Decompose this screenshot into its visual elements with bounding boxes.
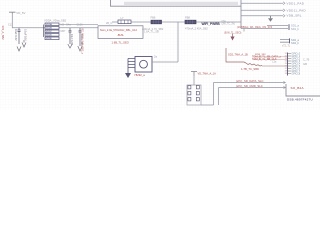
wire into connector — [193, 76, 195, 85]
inductor L7 — [118, 16, 131, 24]
svg-text:C4a: C4a — [66, 24, 71, 27]
svg-text:(2/C)_SD_CMD_SLC: (2/C)_SD_CMD_SLC — [236, 84, 263, 88]
ferrite bead FB6 — [142, 16, 164, 34]
svg-text:1.8A_TL_SB: 1.8A_TL_SB — [144, 30, 159, 34]
bottom connector J3 — [187, 85, 201, 105]
svg-text:SD2_TMA_A_1B: SD2_TMA_A_1B — [228, 52, 248, 56]
wire row1 top right — [241, 1, 305, 5]
svg-text:Y8292_a: Y8292_a — [134, 73, 145, 77]
wire down from upper rail — [177, 22, 179, 62]
svg-text:VDDA: VDDA — [46, 23, 53, 26]
svg-text:VDDD: VDDD — [46, 35, 53, 37]
svg-text:L7: L7 — [121, 16, 124, 20]
svg-text:(2W_TC_3V): (2W_TC_3V) — [222, 23, 236, 25]
long wire with red label (y28.5) — [237, 24, 299, 32]
svg-text:M2: M2 — [61, 23, 65, 26]
crystal / shield can Y8292 — [125, 55, 178, 79]
svg-text:C136: C136 — [77, 24, 84, 27]
svg-text:FB6: FB6 — [151, 16, 156, 20]
svg-text:1.6B_TL_SEO: 1.6B_TL_SEO — [112, 41, 129, 45]
capacitor C12 — [18, 28, 21, 44]
svg-text:(2/C)_SD_DATA_SLC: (2/C)_SD_DATA_SLC — [236, 79, 264, 83]
svg-text:VDD11_PAD: VDD11_PAD — [287, 9, 307, 13]
ground arrow branch 2 — [22, 40, 26, 47]
svg-text:VDDB: VDDB — [46, 28, 53, 30]
note box with red net names — [98, 26, 143, 39]
svg-text:0.1uF 16V: 0.1uF 16V — [24, 29, 27, 41]
capacitor C136 — [77, 24, 84, 52]
wire row3 with power arrow — [241, 14, 302, 22]
svg-text:VDDE: VDDE — [46, 38, 53, 40]
wire from top (x241) — [240, 0, 242, 29]
capacitor C4a — [66, 24, 73, 49]
svg-text:10uF 6.3V: 10uF 6.3V — [14, 29, 17, 41]
IC / bead array U7 — [44, 18, 99, 40]
svg-text:GPIO_8: GPIO_8 — [292, 72, 301, 75]
svg-text:1-TB_TC_SBD: 1-TB_TC_SBD — [241, 67, 259, 71]
svg-text:GB: GB — [303, 62, 307, 66]
svg-text:VDDC: VDDC — [46, 31, 53, 33]
zigzag wire mid — [226, 48, 262, 66]
svg-text:-BUS-: -BUS- — [117, 33, 124, 37]
svg-text:xT2_TL: xT2_TL — [282, 45, 291, 48]
right connector pin field — [252, 52, 310, 75]
power symbol VCC top-left — [9, 11, 26, 15]
svg-text:VD_5V: VD_5V — [16, 11, 25, 15]
main rail wire left — [12, 27, 98, 29]
wire row2 — [241, 9, 306, 13]
svg-text:SO_B2A: SO_B2A — [291, 86, 305, 90]
svg-text:BT_REG_1V8_SB2_x: BT_REG_1V8_SB2_x — [81, 29, 85, 55]
svg-text:(E/W_TL_SEO): (E/W_TL_SEO) — [224, 32, 242, 35]
wires from connector to bottom-right block — [201, 79, 285, 105]
wire from power to rail — [11, 14, 14, 28]
upper rail wire (y22) — [112, 21, 241, 23]
svg-text:FB8: FB8 — [185, 16, 190, 20]
ground arrow under C12 — [17, 47, 21, 52]
svg-text:VDB_SRL: VDB_SRL — [287, 14, 302, 18]
svg-text:2B_m: 2B_m — [106, 22, 112, 25]
svg-text:C12: C12 — [8, 24, 13, 27]
svg-text:470mA_2.45A_SB2: 470mA_2.45A_SB2 — [185, 26, 208, 30]
svg-text:SD1_b: SD1_b — [291, 27, 299, 31]
svg-text:VDDA_VDva_SB2: VDDA_VDva_SB2 — [44, 18, 67, 22]
svg-text:Num_2.0a_570nOHz_KBL_U12: Num_2.0a_570nOHz_KBL_U12 — [100, 28, 137, 32]
svg-text:SD2_b: SD2_b — [291, 41, 299, 45]
svg-text:VDD1_PAD: VDD1_PAD — [287, 1, 305, 5]
svg-text:10uF 6.3V: 10uF 6.3V — [70, 34, 73, 45]
svg-text:DSB.4897F427U: DSB.4897F427U — [287, 97, 313, 101]
ferrite bead FB8 — [185, 16, 208, 31]
svg-text:VD_TMA_A_1A: VD_TMA_A_1A — [198, 72, 217, 76]
svg-text:C2a: C2a — [272, 60, 277, 63]
power flag arrow mid-right — [224, 32, 242, 41]
title block box (top, partial) — [111, 0, 242, 6]
svg-text:3V3_A_SB2: 3V3_A_SB2 — [1, 26, 5, 41]
svg-text:WIFI_PWRB: WIFI_PWRB — [202, 22, 221, 26]
bottom-right block corner — [286, 84, 320, 101]
small 2-pin stub group right — [280, 38, 299, 48]
power flag + red label above bottom connector — [191, 72, 216, 77]
svg-text:M67: M67 — [61, 30, 66, 33]
